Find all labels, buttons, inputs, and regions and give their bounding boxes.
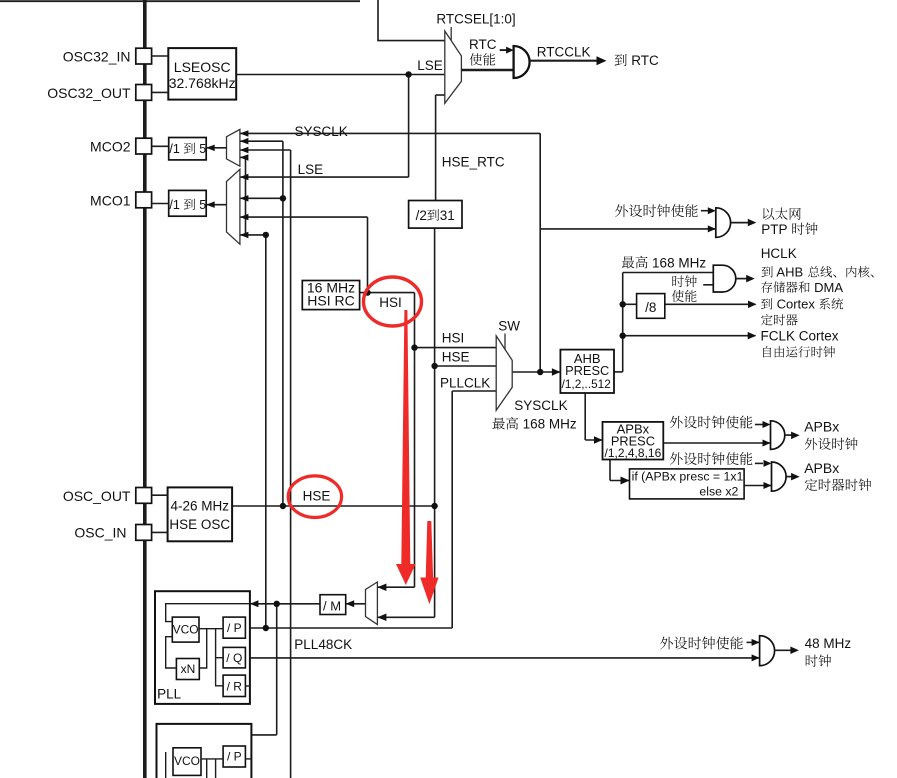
svg-text:HSI RC: HSI RC <box>307 292 354 308</box>
svg-text:/8: /8 <box>645 300 656 315</box>
svg-text:HSE: HSE <box>442 350 470 365</box>
svg-text:4-26 MHz: 4-26 MHz <box>171 499 230 514</box>
svg-text:HCLK: HCLK <box>761 246 797 261</box>
svg-text:PTP: PTP <box>761 222 791 237</box>
svg-text:VCO: VCO <box>174 754 200 768</box>
svg-text:/ P: / P <box>227 750 242 764</box>
svg-text:VCO: VCO <box>173 623 199 637</box>
svg-text:DMA: DMA <box>811 280 844 295</box>
svg-text:HSI: HSI <box>442 331 465 346</box>
svg-text:5: 5 <box>196 198 206 212</box>
svg-text:PLLCLK: PLLCLK <box>440 376 490 391</box>
svg-text:/1: /1 <box>169 198 183 212</box>
svg-text:MCO2: MCO2 <box>90 139 131 155</box>
svg-text:MCO1: MCO1 <box>90 192 131 208</box>
svg-text:PRESC: PRESC <box>565 363 609 378</box>
svg-text:/ M: / M <box>323 599 341 614</box>
svg-text:RTC: RTC <box>469 37 497 52</box>
svg-text:SYSCLK: SYSCLK <box>295 124 348 139</box>
svg-text:/1: /1 <box>169 142 183 156</box>
svg-text:AHB: AHB <box>774 265 807 280</box>
svg-text:LSE: LSE <box>417 58 443 73</box>
svg-text:48 MHz: 48 MHz <box>805 636 852 651</box>
svg-text:Cortex: Cortex <box>773 297 819 312</box>
svg-text:31: 31 <box>440 208 455 223</box>
svg-text:OSC32_IN: OSC32_IN <box>63 49 131 65</box>
svg-text:xN: xN <box>181 662 196 676</box>
svg-text:HSE: HSE <box>303 488 331 503</box>
svg-text:RTCSEL[1:0]: RTCSEL[1:0] <box>436 12 515 27</box>
svg-text:HSE OSC: HSE OSC <box>169 517 230 532</box>
svg-text:HSI: HSI <box>379 295 402 310</box>
svg-text:LSEOSC: LSEOSC <box>174 59 231 75</box>
svg-text:/ Q: / Q <box>226 651 242 665</box>
svg-text:/ P: / P <box>227 621 242 635</box>
svg-text:HSE_RTC: HSE_RTC <box>442 155 505 170</box>
svg-text:SYSCLK: SYSCLK <box>514 398 567 413</box>
svg-text:LSE: LSE <box>298 162 324 177</box>
svg-text:5: 5 <box>196 142 206 156</box>
svg-text:FCLK Cortex: FCLK Cortex <box>761 329 839 344</box>
svg-text:/1,2,..512: /1,2,..512 <box>562 377 611 391</box>
svg-text:SW: SW <box>498 319 520 334</box>
svg-text:else x2: else x2 <box>699 484 738 498</box>
svg-text:APBx: APBx <box>804 460 839 476</box>
svg-text:PLL48CK: PLL48CK <box>294 637 352 652</box>
svg-text:RTC: RTC <box>628 53 660 68</box>
svg-text:/ R: / R <box>227 680 243 694</box>
svg-text:32.768kHz: 32.768kHz <box>169 75 236 91</box>
svg-text:OSC_OUT: OSC_OUT <box>63 488 131 504</box>
svg-text:168 MHz: 168 MHz <box>648 255 706 270</box>
svg-text:OSC32_OUT: OSC32_OUT <box>47 85 131 101</box>
svg-text:168 MHz: 168 MHz <box>519 417 577 432</box>
svg-text:PLL: PLL <box>157 687 182 702</box>
svg-text:/1,2,4,8,16: /1,2,4,8,16 <box>605 446 662 460</box>
svg-text:OSC_IN: OSC_IN <box>74 525 126 541</box>
svg-text:if (APBx presc = 1x1: if (APBx presc = 1x1 <box>632 469 744 483</box>
svg-text:/2: /2 <box>416 208 427 223</box>
svg-text:RTCCLK: RTCCLK <box>537 45 591 60</box>
svg-text:APBx: APBx <box>804 419 839 435</box>
